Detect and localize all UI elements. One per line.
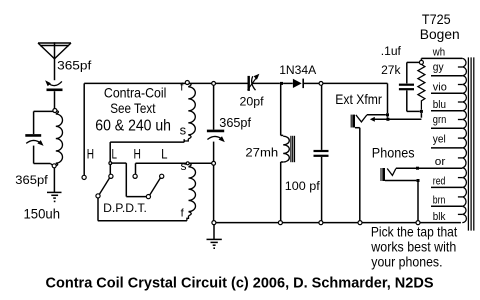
svg-text:L: L (112, 146, 118, 162)
svg-text:s: s (181, 159, 187, 173)
svg-text:365pf: 365pf (219, 115, 251, 130)
svg-text:Bogen: Bogen (420, 26, 460, 42)
svg-text:Phones: Phones (372, 144, 415, 160)
svg-text:T725: T725 (422, 11, 451, 27)
svg-text:20pf: 20pf (240, 95, 265, 109)
svg-text:365pf: 365pf (15, 173, 48, 187)
svg-text:vio: vio (433, 82, 447, 94)
svg-text:Pick the tap that: Pick the tap that (371, 223, 457, 239)
svg-text:D.P.D.T.: D.P.D.T. (103, 203, 147, 215)
svg-text:wh: wh (432, 47, 445, 59)
svg-text:your phones.: your phones. (371, 253, 442, 269)
svg-text:27k: 27k (381, 63, 401, 77)
svg-text:L: L (161, 146, 168, 162)
svg-text:Contra-Coil: Contra-Coil (104, 84, 166, 100)
svg-text:gy: gy (433, 62, 444, 74)
svg-text:60 & 240 uh: 60 & 240 uh (95, 118, 171, 135)
svg-text:Ext Xfmr: Ext Xfmr (335, 91, 382, 107)
svg-text:grn: grn (433, 114, 447, 126)
svg-text:red: red (433, 176, 446, 188)
svg-text:or: or (435, 156, 446, 168)
svg-text:1N34A: 1N34A (279, 63, 317, 77)
svg-text:Contra Coil Crystal Circuit (c: Contra Coil Crystal Circuit (c) 2006, D.… (46, 276, 434, 292)
svg-text:.1uf: .1uf (381, 44, 402, 58)
svg-text:blu: blu (433, 99, 446, 111)
svg-text:100 pf: 100 pf (285, 179, 321, 193)
svg-text:365pf: 365pf (57, 58, 92, 72)
svg-text:brn: brn (433, 195, 446, 207)
svg-text:H: H (134, 146, 141, 162)
svg-text:s: s (180, 122, 187, 137)
svg-text:works best with: works best with (370, 238, 456, 254)
svg-text:See Text: See Text (110, 100, 155, 116)
svg-text:150uh: 150uh (24, 205, 61, 221)
svg-text:blk: blk (433, 211, 446, 223)
svg-text:H: H (87, 146, 94, 162)
svg-text:yel: yel (433, 134, 446, 146)
svg-text:27mh: 27mh (245, 145, 278, 159)
